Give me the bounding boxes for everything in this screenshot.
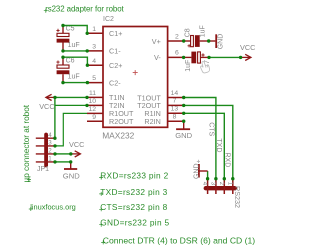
junction C6 bottom (61, 81, 64, 84)
junction RS232 pin 2 (223, 177, 226, 180)
svg-text:10: 10 (88, 98, 96, 105)
op-amp IC2 MAX232 box (103, 27, 168, 128)
note line 2 TXD (99, 187, 167, 197)
svg-text:1: 1 (92, 26, 96, 33)
connector JP1 (36, 132, 55, 173)
junction JP1 pin 1 (53, 160, 56, 163)
junction pin 3 (86, 49, 89, 52)
supply VCC arrow at JP1 pin 2 (69, 140, 84, 157)
svg-text:Connect DTR (4) to DSR (6) and: Connect DTR (4) to DSR (6) and CD (1) (103, 235, 255, 245)
svg-text:RXD: RXD (224, 153, 231, 168)
svg-text:GND: GND (63, 172, 80, 181)
svg-text:rs232 adapter for robot: rs232 adapter for robot (45, 5, 124, 14)
wire T2IN pin 10 (55, 104, 87, 106)
junction RS232 pin 1 (231, 177, 234, 180)
junction VCC T1IN (53, 96, 56, 99)
svg-text:1uF: 1uF (68, 42, 80, 49)
svg-text:1uF: 1uF (199, 25, 206, 37)
connector RS232 (201, 179, 242, 208)
note line 5 Connect DTR (101, 235, 255, 245)
svg-text:C1+: C1+ (109, 29, 122, 38)
svg-text:TXD: TXD (215, 138, 222, 152)
svg-text:GND=rs232 pin 5: GND=rs232 pin 5 (100, 218, 169, 228)
svg-text:C5: C5 (66, 26, 75, 33)
svg-text:JP1: JP1 (37, 166, 49, 173)
wire R1OUT pin 12 to JP1 pin 3 (55, 113, 87, 145)
svg-text:14: 14 (171, 90, 179, 97)
svg-text:2: 2 (175, 33, 179, 40)
svg-text:11: 11 (89, 90, 96, 97)
junction JP1 GND (69, 160, 72, 163)
svg-text:6: 6 (175, 50, 179, 57)
svg-text:C8: C8 (185, 28, 192, 37)
svg-text:IC2: IC2 (103, 16, 114, 23)
wire JP1 pin 1 to GND (55, 161, 71, 163)
wire VCC down to JP1 pin 4 (54, 97, 56, 138)
wire R1IN pin 13 to RS232 (TXD) (184, 113, 225, 178)
wire VCC to T1IN pin 11 (53, 96, 87, 98)
junction pin 4 (86, 63, 89, 66)
svg-text:TXD=rs232 pin 3: TXD=rs232 pin 3 (100, 187, 167, 197)
junction VCC net (239, 56, 242, 59)
svg-text:V-: V- (154, 53, 161, 62)
svg-text:9: 9 (92, 114, 96, 121)
svg-text:1uF: 1uF (68, 74, 80, 81)
note line 4 GND (99, 218, 169, 228)
note line 3 CTS (99, 202, 167, 212)
svg-text:RS232: RS232 (233, 186, 242, 208)
junction pin 1 (86, 32, 89, 35)
svg-text:VCC: VCC (69, 140, 84, 149)
svg-text:VCC: VCC (240, 43, 255, 52)
svg-text:CTS: CTS (207, 122, 214, 136)
svg-text:µp connector at robot: µp connector at robot (22, 104, 31, 182)
junction pin 14 (182, 96, 185, 99)
supply VCC arrow top right (240, 43, 255, 61)
ground GND at JP1 pin 1 (63, 162, 80, 181)
junction JP1 pin 2 (53, 152, 56, 155)
junction C6 top (61, 56, 64, 59)
junction RS232 pin 3 (214, 177, 217, 180)
svg-text:RXD=rs233 pin 2: RXD=rs233 pin 2 (100, 171, 168, 181)
junction pin 13 (182, 112, 185, 115)
junction RS232 pin 4 (206, 177, 209, 180)
ground GND at C8 (209, 34, 225, 50)
svg-text:12: 12 (88, 106, 96, 113)
svg-text:C1-: C1- (109, 47, 121, 56)
junction JP1 pin 3 (53, 144, 56, 147)
svg-text:linuxfocus.org: linuxfocus.org (30, 202, 76, 211)
junction pin 5 (86, 81, 89, 84)
svg-text:GND: GND (218, 34, 225, 50)
junction pin 11 (85, 96, 88, 99)
junction C5 top (61, 24, 64, 27)
svg-text:GND: GND (193, 163, 200, 179)
junction JP1 pin 4 (53, 137, 56, 140)
svg-text:MAX232: MAX232 (102, 130, 134, 140)
svg-text:5: 5 (92, 75, 96, 82)
junction C5 bottom (61, 49, 64, 52)
wire GND to RS232 pin 4 (207, 171, 209, 179)
note line 1 RXD (99, 171, 168, 181)
wire T2OUT pin 7 to RS232 (RXD) (184, 105, 233, 178)
junction C7 right (207, 56, 210, 59)
wire C6 top to pin 4 (63, 57, 87, 65)
junction pin 6 (182, 56, 185, 59)
IC right pin stubs (168, 41, 184, 121)
capacitor C7 (184, 52, 211, 72)
svg-text:GND: GND (175, 131, 192, 140)
svg-text:1: 1 (48, 156, 52, 163)
ground GND at RS232 pin 4 (193, 160, 207, 179)
ground GND at R2IN pin 8 (175, 121, 192, 140)
svg-text:R2IN: R2IN (144, 117, 160, 126)
svg-text:C6: C6 (66, 57, 75, 64)
svg-text:R2OUT: R2OUT (109, 117, 134, 126)
capacitor C6 (56, 57, 79, 82)
svg-text:3: 3 (92, 44, 96, 51)
svg-text:7: 7 (173, 98, 177, 105)
wire T1OUT pin 14 to RS232 (CTS) (184, 98, 216, 179)
junction C8 GND (207, 39, 210, 42)
svg-text:1uF: 1uF (185, 60, 192, 72)
junction JP1 VCC (69, 152, 72, 155)
rotated note "µp connector at robot" (22, 104, 31, 182)
junction pin 7 (182, 104, 185, 107)
svg-text:C2+: C2+ (109, 61, 122, 70)
wire C5 top to pin 1 (63, 26, 87, 34)
title text "rs232 adapter for robot" (44, 5, 125, 14)
junction pin 2 (182, 39, 185, 42)
junction pin 10 (85, 104, 88, 107)
IC origin cross (133, 70, 138, 75)
IC left pin stubs (87, 33, 103, 121)
svg-text:2: 2 (48, 148, 52, 155)
svg-text:VCC: VCC (39, 102, 54, 111)
wire V- to VCC arrow (209, 56, 241, 58)
svg-text:8: 8 (173, 114, 177, 121)
wire JP1 pin 2 to VCC arrow (55, 153, 71, 155)
svg-text:4: 4 (92, 58, 96, 65)
wire C6 bottom to pin 5 (63, 82, 88, 84)
capacitor C5 (56, 26, 79, 51)
svg-text:CTS=rs232 pin 8: CTS=rs232 pin 8 (100, 202, 167, 212)
svg-text:3: 3 (48, 140, 52, 147)
svg-text:4: 4 (48, 132, 52, 139)
junction pin 8 (182, 120, 185, 123)
text linuxfocus.org (29, 202, 76, 211)
capacitor C8 (184, 25, 209, 47)
svg-text:V+: V+ (152, 37, 161, 46)
supply VCC arrow at T1IN (39, 94, 55, 111)
mouse hand cursor (201, 62, 210, 73)
svg-text:C2-: C2- (109, 78, 121, 87)
svg-text:13: 13 (171, 106, 179, 113)
wire C5 bottom to pin 3 (63, 50, 88, 52)
